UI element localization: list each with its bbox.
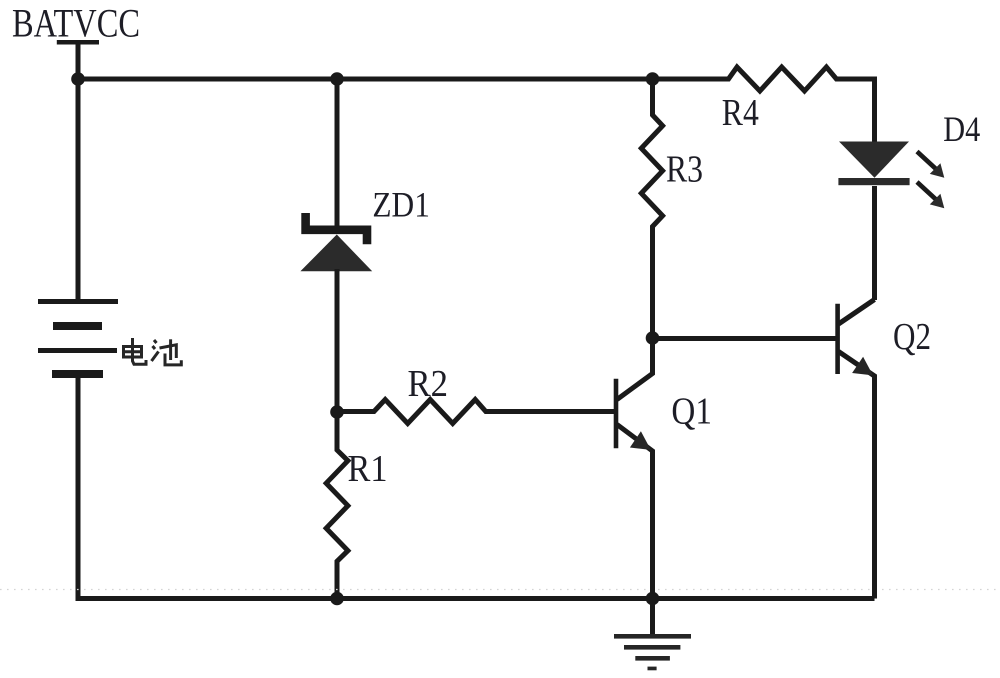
svg-text:Q2: Q2 — [893, 316, 931, 358]
svg-text:BATVCC: BATVCC — [12, 1, 140, 46]
transistor Q2 — [838, 264, 875, 599]
resistor R3 — [641, 79, 662, 338]
svg-text:Q1: Q1 — [671, 391, 712, 433]
junction zener top — [330, 72, 344, 86]
resistor R1 — [326, 413, 348, 599]
svg-text:R1: R1 — [348, 448, 388, 490]
faint grid line — [0, 589, 1000, 591]
LED light arrow 1 — [917, 152, 944, 178]
svg-text:R4: R4 — [722, 92, 759, 134]
resistor R4 — [653, 67, 875, 144]
zener diode ZD1 — [300, 213, 372, 271]
junction battery top — [71, 72, 85, 86]
wire zener top lead — [335, 79, 340, 229]
svg-text:D4: D4 — [943, 109, 980, 149]
LED light arrow 2 — [917, 182, 944, 208]
wire zener bottom lead — [335, 269, 340, 413]
wire Q2 base — [653, 336, 836, 341]
LED D4 — [838, 142, 909, 301]
wire power stub — [76, 42, 81, 79]
junction R1 bottom — [330, 592, 344, 606]
svg-text:R2: R2 — [408, 363, 449, 405]
junction R1 R2 zener — [330, 405, 344, 419]
junction Q1 collector / Q2 base — [646, 331, 660, 345]
wire battery bottom lead — [76, 378, 81, 599]
wire bottom rail — [76, 596, 875, 601]
wire battery top lead — [76, 79, 81, 301]
resistor R2 — [337, 400, 614, 424]
junction R3 R4 top — [646, 72, 660, 86]
svg-text:ZD1: ZD1 — [372, 184, 430, 224]
power symbol bar — [57, 40, 99, 45]
transistor Q1 — [616, 338, 653, 599]
junction ground — [646, 592, 660, 606]
wire top rail — [76, 77, 655, 82]
label 电池 (battery) drawn strokes — [124, 338, 182, 365]
battery — [38, 299, 118, 378]
svg-text:R3: R3 — [666, 149, 703, 191]
ground — [614, 599, 691, 671]
